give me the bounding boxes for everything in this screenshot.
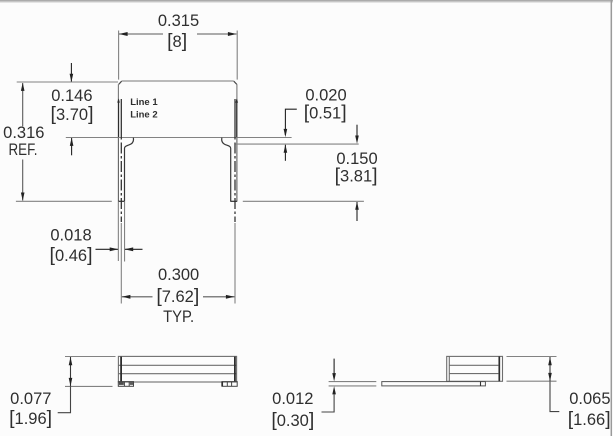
end view lead strip — [382, 382, 486, 386]
body top-right corner chamfer — [234, 81, 237, 84]
side view left foot — [118, 382, 133, 387]
dimension 0.020 leader — [285, 109, 296, 135]
dimension 0.077 top arrowhead — [69, 357, 73, 365]
svg-text:TYP.: TYP. — [163, 308, 194, 326]
body top extension line to left — [17, 81, 118, 83]
dimension 0.077 top extension line — [65, 356, 116, 358]
dimension 0.065 bottom arrowhead — [548, 373, 552, 381]
svg-text:0.018: 0.018 — [50, 227, 91, 245]
left lead outer edge — [117, 138, 119, 202]
svg-text:[3.81]: [3.81] — [335, 165, 378, 187]
svg-text:0.300: 0.300 — [158, 266, 199, 284]
body left edge artifact tick — [117, 99, 120, 103]
dimension 0.077 bottom extension line — [65, 385, 113, 387]
end view right end cap dark bar — [498, 356, 500, 381]
side view right foot — [222, 382, 237, 387]
right lead centerline upper solid section — [234, 99, 236, 140]
dimension 0.316 line upper segment — [22, 83, 24, 126]
body right edge artifact tick — [235, 99, 238, 103]
dimension 0.300 line right segment — [203, 296, 235, 298]
dimension 0.300 right arrowhead — [226, 295, 235, 299]
svg-text:[0.30]: [0.30] — [271, 409, 314, 431]
dimension 0.065 line — [549, 357, 551, 381]
body bottom edge with extensions — [66, 137, 292, 139]
side view left end cap dark bar — [120, 357, 122, 382]
body top-left corner chamfer — [119, 81, 122, 84]
svg-text:0.316: 0.316 — [3, 124, 44, 142]
dimension 0.065 bottom extension line — [507, 380, 557, 382]
body top edge — [122, 80, 234, 82]
side view left foot cell 3 dark fill — [130, 382, 133, 385]
svg-text:REF.: REF. — [9, 141, 38, 159]
body right edge dark lower segment — [236, 100, 238, 138]
side view right foot divider 1 — [226, 382, 228, 387]
dimension 0.146 top arrow tail — [70, 63, 72, 82]
dimension 0.065 top arrowhead — [548, 357, 552, 365]
dimension 0.316 top arrowhead — [21, 83, 25, 91]
side view left foot cell 1 dark fill — [119, 382, 124, 385]
body right edge — [236, 84, 238, 137]
dimension 0.012 top extension line — [329, 381, 377, 383]
end view body outline — [447, 356, 503, 381]
dimension 0.012 bottom extension line — [329, 385, 377, 387]
dimension 0.012 top arrow tail — [333, 359, 335, 374]
dimension 0.146 top arrowhead — [70, 74, 74, 82]
svg-text:0.065: 0.065 — [569, 390, 610, 408]
side view right end cap dark bar — [234, 357, 236, 382]
body left edge — [117, 84, 119, 137]
end view internal line lower — [449, 373, 498, 375]
end view internal line upper — [449, 364, 498, 366]
scan top edge band — [0, 0, 613, 2]
dimension 0.020 bottom arrow tail — [284, 145, 286, 161]
side view right foot left edge dark — [221, 382, 223, 387]
side view left foot divider 1 — [123, 382, 125, 387]
svg-text:0.146: 0.146 — [51, 87, 92, 105]
lead bottom extension line right — [243, 200, 364, 202]
side view right foot divider 2 — [231, 382, 233, 387]
dimension 0.018 left arrow tail — [96, 248, 118, 250]
dimension 0.315 extension line right — [236, 31, 238, 80]
dimension 0.018 extension line right — [124, 201, 126, 261]
dimension 0.315 line right segment — [197, 33, 237, 35]
dimension 0.315 arrow left — [119, 32, 128, 36]
dimension 0.315 arrow right — [228, 32, 237, 36]
dimension 0.146 bottom arrowhead — [70, 138, 74, 146]
side view left foot divider 2 — [128, 382, 130, 387]
svg-text:0.077: 0.077 — [10, 390, 51, 408]
standoff extension line right — [236, 143, 359, 145]
svg-text:[1.66]: [1.66] — [568, 408, 611, 430]
dimension 0.012 bottom arrowhead — [332, 386, 336, 394]
dimension 0.012 bottom leader — [322, 394, 335, 412]
dimension 0.315 extension line left — [118, 31, 120, 80]
dimension 0.150 top arrowhead — [355, 136, 359, 144]
dimension 0.315 line left segment — [119, 33, 163, 35]
right lead flare and inner edge — [222, 138, 231, 202]
left lead centerline dash-dot section — [120, 143, 122, 223]
dimension 0.150 top arrow tail — [356, 125, 358, 136]
dimension 0.018 left arrowhead — [110, 247, 119, 251]
dimension 0.077 line — [70, 357, 72, 386]
dimension 0.020 bottom arrowhead — [284, 144, 288, 152]
dimension 0.077 bottom arrowhead — [69, 378, 73, 386]
lead bottom extension line left — [16, 200, 112, 202]
dimension 0.300 extension line right — [234, 223, 236, 304]
dimension 0.316 line lower segment — [22, 160, 24, 201]
side view internal line lower — [118, 373, 236, 375]
dimension 0.150 bottom arrowhead — [355, 202, 359, 210]
side view body outline — [118, 356, 236, 382]
svg-text:0.315: 0.315 — [158, 12, 199, 30]
side view internal line upper — [118, 364, 236, 366]
left lead centerline upper solid section — [120, 99, 122, 140]
right lead centerline dash-dot section — [234, 143, 236, 223]
left lead bottom edge — [118, 200, 125, 202]
dimension 0.300 left arrowhead — [122, 295, 131, 299]
svg-text:[3.70]: [3.70] — [51, 103, 94, 125]
svg-text:[1.96]: [1.96] — [9, 407, 52, 429]
dimension 0.012 top arrowhead — [332, 373, 336, 381]
dimension 0.150 bottom arrow tail — [356, 202, 358, 221]
svg-text:0.012: 0.012 — [272, 390, 313, 408]
dimension 0.300 line left segment — [122, 296, 153, 298]
svg-text:Line 2: Line 2 — [130, 109, 157, 120]
dimension 0.018 extension line left — [117, 201, 119, 261]
dimension 0.146 bottom arrow tail — [71, 138, 73, 155]
dimension 0.300 extension line left — [120, 223, 122, 304]
svg-text:[7.62]: [7.62] — [156, 285, 199, 307]
scan right edge line — [610, 0, 612, 436]
body left edge dark lower segment — [118, 100, 120, 138]
dimension 0.065 leader — [550, 381, 559, 411]
end view left internal line — [448, 356, 450, 381]
dimension 0.018 right arrow tail — [125, 248, 143, 250]
left lead flare and inner edge — [125, 138, 134, 202]
dimension 0.020 top arrowhead — [284, 129, 288, 137]
svg-text:[8]: [8] — [167, 30, 187, 52]
dimension 0.018 right arrowhead — [125, 247, 134, 251]
end view lead strip end divider — [480, 382, 482, 386]
svg-text:[0.51]: [0.51] — [304, 101, 347, 123]
right lead bottom edge — [230, 200, 237, 202]
svg-text:[0.46]: [0.46] — [50, 244, 93, 266]
dimension 0.316 bottom arrowhead — [21, 193, 25, 201]
right lead outer edge — [236, 138, 238, 202]
dimension 0.065 top extension line — [507, 356, 557, 358]
svg-text:Line 1: Line 1 — [130, 97, 158, 108]
dimension 0.077 leader — [58, 386, 71, 413]
